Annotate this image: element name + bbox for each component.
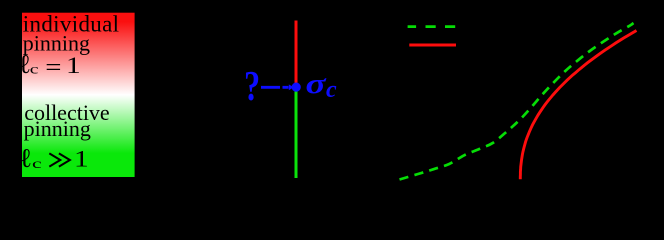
gradient phase box bbox=[22, 13, 135, 177]
legend red solid sample bbox=[409, 44, 456, 47]
svg-text:c: c bbox=[32, 156, 42, 171]
svg-text:=: = bbox=[45, 53, 61, 80]
middle axis: green lower segment bbox=[295, 90, 298, 179]
node sigma_c: blue dot bbox=[292, 83, 301, 92]
svg-text:?: ? bbox=[244, 64, 260, 110]
svg-text:pinning: pinning bbox=[24, 116, 91, 141]
svg-text:σ: σ bbox=[306, 68, 327, 100]
svg-text:c: c bbox=[326, 77, 337, 103]
blue dashed arrow bbox=[261, 86, 289, 89]
question mark bbox=[244, 64, 260, 110]
svg-text:c: c bbox=[30, 61, 39, 77]
much-greater-than symbol bbox=[49, 153, 70, 166]
svg-text:1: 1 bbox=[66, 52, 81, 79]
svg-text:ℓ: ℓ bbox=[19, 143, 32, 173]
arrowhead bbox=[289, 84, 294, 90]
green dashed creep curve bbox=[400, 23, 634, 180]
legend green dashed sample bbox=[408, 25, 456, 28]
middle axis: red upper segment bbox=[295, 21, 298, 86]
svg-text:1: 1 bbox=[74, 145, 89, 172]
red depinning curve bbox=[520, 31, 636, 180]
label sigma_c bbox=[306, 68, 327, 100]
